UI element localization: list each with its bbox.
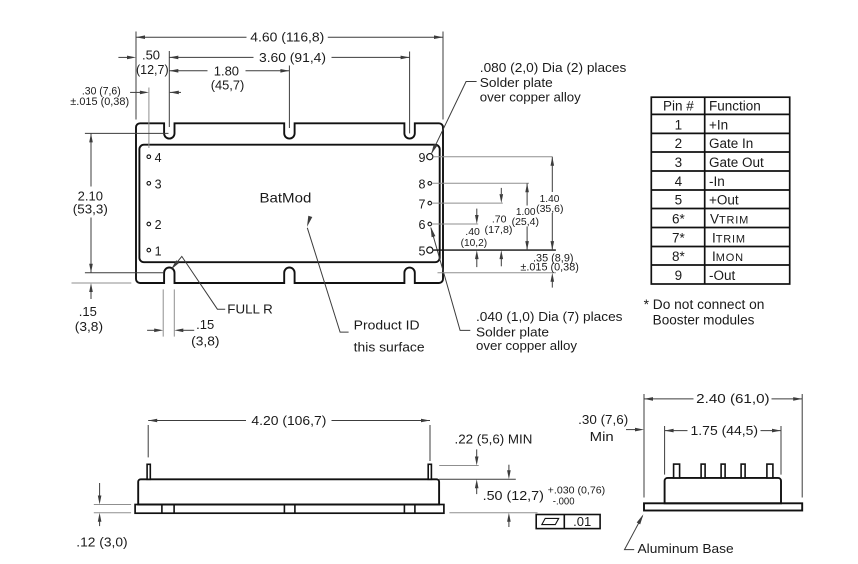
svg-text:(25,4): (25,4): [512, 216, 539, 228]
callout .040 (1,0) Dia (7) places solder plate: [431, 227, 623, 354]
svg-text:(45,7): (45,7): [211, 78, 245, 93]
svg-text:ITRIM: ITRIM: [712, 231, 746, 246]
dimension .15 (3,8) slot width (bottom): [147, 289, 219, 348]
pin 3: [147, 178, 162, 192]
flatness feature control frame .01: [536, 514, 600, 529]
pin 8: [418, 178, 431, 192]
svg-text:.50: .50: [142, 48, 160, 63]
svg-text:6: 6: [418, 218, 425, 232]
svg-text:(3,8): (3,8): [191, 333, 219, 348]
svg-text:8*: 8*: [672, 249, 686, 264]
svg-text:3: 3: [155, 178, 162, 192]
end view pin: [701, 464, 705, 478]
module flange outline (top view) with mounting slots: [136, 123, 443, 283]
svg-text:Gate In: Gate In: [709, 136, 753, 151]
pin 9: [418, 151, 432, 165]
svg-text:(12,7): (12,7): [136, 62, 169, 77]
side view right pin: [428, 464, 431, 479]
svg-text:5: 5: [675, 193, 683, 208]
svg-text:4.60 (116,8): 4.60 (116,8): [250, 30, 324, 45]
pin function table: [651, 97, 789, 284]
svg-text:7: 7: [418, 197, 425, 211]
svg-text:4: 4: [675, 174, 683, 189]
svg-text:±.015 (0,38): ±.015 (0,38): [70, 96, 129, 108]
dimension .50 (12,7) module height: [439, 465, 605, 527]
pin 1: [147, 244, 162, 258]
base slot edge: [283, 505, 285, 514]
end view aluminum base plate: [644, 503, 802, 510]
svg-text:+In: +In: [709, 118, 728, 133]
dimension .15 (3,8) slot center to flange bottom (left): [72, 283, 132, 334]
svg-text:.12 (3,0): .12 (3,0): [76, 535, 127, 550]
svg-text:9: 9: [418, 151, 425, 165]
dimension 2.10 (53,3) slot centers vertical: [73, 133, 169, 272]
end view pin: [674, 464, 680, 478]
svg-text:.15: .15: [196, 317, 214, 332]
svg-text:over copper alloy: over copper alloy: [480, 89, 582, 104]
side view left pin: [147, 464, 150, 479]
svg-text:.01: .01: [573, 514, 591, 529]
bottom slot centerline right extension: [438, 272, 556, 274]
svg-text:Solder plate: Solder plate: [480, 75, 553, 90]
pin 5 row line: [433, 249, 556, 251]
dimension 3.60 (91,4) slot1 to slot3: [169, 50, 409, 133]
svg-text:4: 4: [155, 151, 162, 165]
end view pin: [741, 464, 745, 478]
svg-text:1.75 (44,5): 1.75 (44,5): [691, 423, 759, 438]
svg-text:Product ID: Product ID: [354, 317, 420, 332]
svg-text:IMON: IMON: [712, 249, 744, 264]
dimension .30 (7,6) Min base overhang: [578, 412, 644, 444]
svg-text:1.80: 1.80: [214, 64, 239, 79]
svg-text:8: 8: [418, 178, 425, 192]
Product ID callout: [307, 216, 425, 355]
dimension .70 (17,8) pin7 to pin5: [485, 188, 513, 266]
base slot edge: [294, 505, 296, 514]
end view pin: [767, 464, 773, 478]
svg-text:5: 5: [418, 244, 425, 258]
Aluminum Base callout: [625, 514, 734, 556]
svg-text:.50 (12,7): .50 (12,7): [483, 488, 544, 503]
svg-text:±.015 (0,38): ±.015 (0,38): [520, 262, 579, 274]
svg-text:(53,3): (53,3): [73, 202, 108, 217]
pin 4: [147, 151, 162, 165]
svg-text:.080 (2,0) Dia (2) places: .080 (2,0) Dia (2) places: [480, 60, 627, 75]
pin table text: [663, 99, 764, 284]
end view module body: [665, 478, 781, 503]
dimension 4.20 (106,7) pin spacing: [148, 413, 430, 461]
svg-text:.30 (7,6): .30 (7,6): [578, 412, 628, 427]
base slot edge: [403, 505, 405, 514]
base slot edge: [414, 505, 416, 514]
dimension 1.75 (44,5) body width: [665, 423, 781, 475]
dimension .30 (7,6) ±.015 (0,38) slot center to pin row: [70, 86, 181, 148]
svg-text:over copper alloy: over copper alloy: [476, 338, 578, 353]
dimension 4.60 (116,8) overall width: [136, 30, 443, 120]
base slot edge: [161, 505, 163, 514]
svg-text:this surface: this surface: [354, 340, 425, 355]
svg-text:* Do not connect on: * Do not connect on: [644, 297, 765, 312]
pin 7: [418, 197, 431, 211]
pin 6 row extension line: [432, 223, 479, 225]
svg-text:Aluminum Base: Aluminum Base: [638, 541, 734, 556]
dimension .35 (8,9) ±.015 (0,38) pin5 row to slot center: [520, 252, 579, 287]
svg-text:3.60 (91,4): 3.60 (91,4): [259, 50, 326, 65]
svg-text:1: 1: [155, 244, 162, 258]
svg-text:Booster modules: Booster modules: [653, 313, 755, 328]
svg-text:Pin #: Pin #: [663, 99, 694, 114]
svg-text:FULL R: FULL R: [227, 302, 272, 317]
dimension .50 (12,7) flange edge to first slot: [118, 48, 168, 77]
svg-text:1: 1: [675, 118, 683, 133]
side view base flange: [135, 505, 444, 514]
dimension 1.80 (45,7) slot1 to slot2: [169, 64, 289, 128]
svg-text:-.000: -.000: [553, 495, 575, 507]
svg-text:Min: Min: [590, 429, 614, 444]
callout .080 (2,0) Dia (2) places solder plate: [431, 60, 627, 154]
svg-text:.22 (5,6) MIN: .22 (5,6) MIN: [455, 432, 533, 447]
svg-text:-In: -In: [709, 174, 725, 189]
svg-text:2.40 (61,0): 2.40 (61,0): [696, 391, 769, 406]
dimension 1.40 (35,6) pin9 to pin5: [536, 157, 563, 250]
note: do not connect on booster modules: [644, 297, 765, 328]
svg-text:+Out: +Out: [709, 193, 739, 208]
base slot edge: [173, 505, 175, 514]
svg-text:2: 2: [675, 136, 683, 151]
svg-text:2: 2: [155, 218, 162, 232]
svg-text:.040 (1,0) Dia (7) places: .040 (1,0) Dia (7) places: [476, 309, 623, 324]
svg-text:-Out: -Out: [709, 268, 736, 283]
svg-text:(10,2): (10,2): [461, 237, 488, 249]
svg-text:6*: 6*: [672, 212, 686, 227]
pin 6: [418, 218, 431, 232]
pin 9 row extension line: [433, 156, 552, 158]
dimension .40 (10,2) pin6 to pin5: [461, 209, 488, 268]
module body outline (top view): [139, 145, 439, 263]
svg-text:9: 9: [675, 268, 683, 283]
pin 8 row extension line: [432, 182, 529, 184]
pin 2: [147, 218, 162, 232]
pin 5: [418, 244, 432, 258]
svg-text:4.20 (106,7): 4.20 (106,7): [251, 413, 326, 428]
dimension 1.00 (25,4) pin8 to pin5: [512, 183, 539, 250]
pin 7 row extension line: [432, 202, 503, 204]
svg-text:.15: .15: [79, 304, 97, 319]
dimension 2.40 (61,0) base width: [644, 391, 802, 497]
svg-text:Function: Function: [709, 99, 761, 114]
FULL R callout: [171, 256, 273, 316]
svg-text:(3,8): (3,8): [75, 319, 103, 334]
end view pin: [721, 464, 725, 478]
svg-text:BatMod: BatMod: [260, 189, 312, 205]
side view module body: [138, 479, 439, 504]
svg-text:3: 3: [675, 155, 683, 170]
svg-text:Gate Out: Gate Out: [709, 155, 764, 170]
dimension .22 (5,6) MIN pin length: [439, 432, 532, 495]
dimension .12 (3,0) base thickness: [76, 483, 131, 550]
svg-text:VTRIM: VTRIM: [710, 212, 749, 227]
svg-text:7*: 7*: [672, 231, 686, 246]
svg-text:(17,8): (17,8): [485, 224, 513, 236]
svg-text:(35,6): (35,6): [536, 203, 563, 215]
